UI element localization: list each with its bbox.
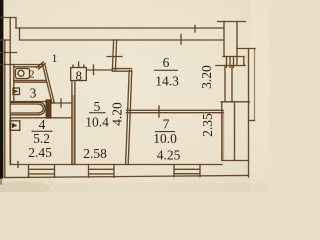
stair window hatch <box>227 57 234 68</box>
corridor-room4 wall y103 <box>50 102 72 104</box>
svg-text:3: 3 <box>30 86 37 101</box>
svg-text:10.4: 10.4 <box>85 115 109 130</box>
wall: top outer <box>16 27 224 29</box>
room 8 stubs <box>73 62 84 68</box>
paper background <box>0 0 270 192</box>
room3 bottom wall <box>10 101 46 103</box>
room 5 underline <box>89 112 106 114</box>
stair cap <box>218 21 246 23</box>
svg-text:1: 1 <box>52 51 58 65</box>
svg-text:4.20: 4.20 <box>110 102 125 126</box>
room labels <box>28 51 215 162</box>
scan band tail <box>0 179 2 185</box>
svg-text:5.2: 5.2 <box>33 131 50 146</box>
door tick room6 left <box>107 56 122 58</box>
room 6 right wall <box>221 102 223 161</box>
svg-text:5: 5 <box>94 99 101 114</box>
paper noise <box>0 0 270 192</box>
sink room2 <box>16 69 30 79</box>
window W1 <box>29 165 55 178</box>
wall: top-left step <box>0 18 16 29</box>
svg-text:4.25: 4.25 <box>157 147 181 162</box>
right outer wall <box>248 49 250 178</box>
bathtub inner <box>10 104 43 113</box>
room2/3 wall <box>14 80 47 82</box>
vent box room4 <box>10 121 20 131</box>
niche bottom bar <box>222 160 249 162</box>
right outer line 2 <box>254 49 256 121</box>
door tick room6 top <box>180 35 182 45</box>
window W3 <box>174 165 200 177</box>
room5/7 wall <box>126 71 132 165</box>
bathtub <box>10 102 45 115</box>
shaft cross bar <box>221 101 250 103</box>
shade right column lighter <box>250 0 270 192</box>
room1/6 wall <box>112 40 116 71</box>
shaft verticals right upper <box>225 66 232 102</box>
svg-text:6: 6 <box>163 55 170 70</box>
shaft next to tub <box>46 100 51 118</box>
stair left vertical <box>223 22 225 57</box>
wall: bottom inner <box>11 164 223 166</box>
right stub y48.5 <box>237 48 255 50</box>
svg-text:2.58: 2.58 <box>83 146 107 161</box>
vent box room3 <box>13 88 20 95</box>
svg-text:7: 7 <box>163 117 170 132</box>
stair right vertical <box>236 22 238 66</box>
vent arrow room3 <box>14 90 18 94</box>
wall: left outer <box>4 40 6 177</box>
svg-text:2.45: 2.45 <box>28 145 52 160</box>
door swing room2 <box>36 62 46 70</box>
svg-text:8: 8 <box>76 69 82 83</box>
sink circle <box>18 70 24 76</box>
right connector y120 <box>249 120 255 122</box>
diagonal wall room2/3 <box>43 65 55 104</box>
stair window bottom <box>216 65 246 67</box>
vent arrow room4 <box>12 123 17 128</box>
door tick room7 <box>158 106 160 117</box>
room 7 underline <box>155 131 175 133</box>
room2 left wall <box>13 65 15 102</box>
bathroom bottom wall <box>11 117 72 119</box>
wall tick left y40 <box>0 39 10 41</box>
svg-text:14.3: 14.3 <box>155 74 179 89</box>
room5 top wall <box>72 69 132 72</box>
wall tick left y52.5 <box>0 52 17 54</box>
door tick room4 <box>60 99 62 107</box>
svg-text:2.35: 2.35 <box>200 113 215 137</box>
shade bottom-left smudge <box>0 181 50 195</box>
svg-text:4: 4 <box>39 117 46 132</box>
svg-text:2: 2 <box>29 69 35 81</box>
wall: bottom outer <box>5 175 249 177</box>
room4 left wall <box>10 118 12 165</box>
door tick room5 <box>93 65 95 75</box>
tick bottom inner x18 <box>17 162 19 168</box>
room4/5 wall <box>72 70 75 165</box>
left black scan band <box>0 0 3 179</box>
shade bottom edge <box>0 183 270 192</box>
clipped title text <box>84 0 188 5</box>
room7 top wall <box>126 110 223 112</box>
shaft right wall lower <box>234 102 236 161</box>
room 6 underline <box>154 69 178 71</box>
svg-text:10.0: 10.0 <box>153 131 177 146</box>
room 7 right wall fill <box>222 111 224 161</box>
room 8 box <box>71 68 87 81</box>
window W2 <box>89 165 115 178</box>
svg-text:3.20: 3.20 <box>199 65 214 89</box>
wall: left inner upper <box>9 18 11 165</box>
wall: top inner <box>20 28 225 40</box>
room2 top wall <box>0 65 43 67</box>
room 4 underline <box>32 130 53 132</box>
tick top outer x195 <box>194 26 196 33</box>
room4/5 wall fill <box>72 95 75 165</box>
stair window top <box>223 57 244 66</box>
